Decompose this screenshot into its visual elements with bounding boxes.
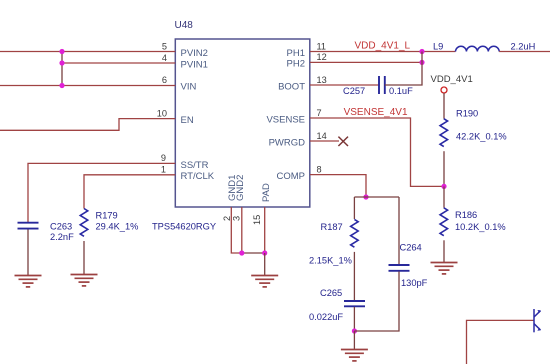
svg-text:C264: C264 xyxy=(400,243,422,253)
wire GND1 stub xyxy=(231,207,242,253)
wire bottom right net xyxy=(467,320,534,364)
wire R186 to ground xyxy=(443,240,445,262)
svg-text:PWRGD: PWRGD xyxy=(269,137,306,148)
svg-text:PH1: PH1 xyxy=(287,48,305,59)
svg-text:VDD_4V1: VDD_4V1 xyxy=(431,74,473,85)
wire R187 to C265 xyxy=(353,252,355,300)
capacitor C265 xyxy=(309,288,365,322)
resistor R179 xyxy=(80,209,138,237)
wire PVIN2 net xyxy=(0,51,175,53)
svg-text:R179: R179 xyxy=(96,211,118,221)
svg-text:12: 12 xyxy=(317,52,327,62)
svg-text:VSENSE: VSENSE xyxy=(266,114,305,125)
pin 3 GND2 xyxy=(232,175,246,221)
svg-text:7: 7 xyxy=(317,108,322,118)
ground IC xyxy=(251,276,278,287)
svg-text:13: 13 xyxy=(317,75,327,85)
ground C263 xyxy=(15,276,42,287)
svg-text:5: 5 xyxy=(162,41,167,51)
pin 8 COMP xyxy=(277,164,322,181)
wire PAD to ground xyxy=(264,253,266,275)
wire GND2 stub xyxy=(241,207,243,253)
pin 7 VSENSE xyxy=(266,108,321,126)
svg-text:R190: R190 xyxy=(456,109,478,119)
svg-text:0.022uF: 0.022uF xyxy=(309,312,343,322)
pin 1 RT/CLK xyxy=(161,165,215,183)
node PH1 junction xyxy=(419,49,424,54)
svg-text:1: 1 xyxy=(161,165,166,175)
svg-text:U48: U48 xyxy=(175,20,194,31)
wire gnd bus horizontal xyxy=(242,252,265,254)
svg-text:C263: C263 xyxy=(50,222,72,232)
wire BOOT to PH2 xyxy=(385,52,422,86)
pin 6 VIN xyxy=(162,75,197,93)
svg-text:BOOT: BOOT xyxy=(278,82,305,93)
svg-text:15: 15 xyxy=(252,215,262,225)
inductor L9 xyxy=(433,42,535,52)
ground R179 xyxy=(71,275,98,286)
capacitor C264 xyxy=(389,243,428,289)
svg-text:PAD: PAD xyxy=(261,183,272,202)
ground C265 xyxy=(341,350,368,361)
svg-text:14: 14 xyxy=(317,131,327,141)
svg-text:C265: C265 xyxy=(320,288,342,298)
svg-text:L9: L9 xyxy=(433,42,443,52)
resistor R186 xyxy=(440,208,506,236)
svg-text:PH2: PH2 xyxy=(287,59,305,70)
svg-text:10: 10 xyxy=(157,108,167,118)
svg-text:8: 8 xyxy=(317,164,322,174)
pin 14 PWRGD xyxy=(269,131,327,149)
wire VDD to R190 xyxy=(443,93,445,119)
svg-text:29.4K_1%: 29.4K_1% xyxy=(96,222,139,232)
svg-text:9: 9 xyxy=(161,153,166,163)
svg-text:COMP: COMP xyxy=(277,171,306,182)
svg-text:R187: R187 xyxy=(321,222,343,232)
svg-text:2.15K_1%: 2.15K_1% xyxy=(309,256,352,266)
node comp gnd junction xyxy=(352,328,357,333)
wire C264 top lead xyxy=(398,197,400,264)
svg-text:11: 11 xyxy=(317,41,327,51)
svg-text:R186: R186 xyxy=(455,210,477,220)
svg-text:VIN: VIN xyxy=(181,82,197,93)
pin 15 PAD xyxy=(252,183,272,225)
node PH2 junction xyxy=(419,60,424,65)
power symbol VDD_4V1 xyxy=(431,74,473,93)
IC U48 body xyxy=(175,39,309,207)
wire R179 to ground xyxy=(83,241,85,274)
svg-text:VDD_4V1_L: VDD_4V1_L xyxy=(355,41,411,52)
svg-text:TPS54620RGY: TPS54620RGY xyxy=(152,222,216,232)
pin 9 SS/TR xyxy=(161,153,209,171)
wire junction to R186 xyxy=(443,186,445,207)
capacitor C263 xyxy=(18,222,75,242)
svg-text:2.2uH: 2.2uH xyxy=(511,42,536,52)
svg-text:6: 6 xyxy=(162,75,167,85)
node input junction 2 xyxy=(59,60,64,65)
wire inductor out xyxy=(499,51,550,53)
svg-text:42.2K_0.1%: 42.2K_0.1% xyxy=(456,132,507,142)
node input junction 3 xyxy=(59,83,64,88)
pin 10 EN xyxy=(157,108,194,126)
svg-text:2.2nF: 2.2nF xyxy=(50,232,74,242)
node COMP junction xyxy=(363,194,368,199)
wire RT/CLK net xyxy=(84,175,175,209)
svg-text:C257: C257 xyxy=(343,86,365,96)
pin 11 PH1 xyxy=(287,41,327,59)
pin 12 PH2 xyxy=(287,52,327,69)
svg-text:3: 3 xyxy=(232,216,242,221)
svg-text:RT/CLK: RT/CLK xyxy=(181,171,215,182)
svg-text:EN: EN xyxy=(181,115,194,126)
svg-text:VSENSE_4V1: VSENSE_4V1 xyxy=(344,107,408,118)
wire R187 top lead xyxy=(353,197,355,219)
wire COMP net xyxy=(310,175,366,197)
no-connect X PWRGD xyxy=(338,137,348,146)
pin 13 BOOT xyxy=(278,75,327,93)
svg-text:GND2: GND2 xyxy=(235,175,246,201)
svg-text:4: 4 xyxy=(162,53,167,63)
svg-text:PVIN1: PVIN1 xyxy=(181,59,208,70)
svg-text:0.1uF: 0.1uF xyxy=(389,86,413,96)
pin 2 GND1 xyxy=(222,175,238,221)
svg-text:SS/TR: SS/TR xyxy=(181,160,209,171)
node input junction 1 xyxy=(59,49,64,54)
wire PH1 net xyxy=(310,51,456,53)
wire junction to ground xyxy=(353,331,355,349)
resistor R187 xyxy=(309,219,358,265)
wire C265 to junction xyxy=(353,307,355,331)
wire VSENSE net xyxy=(310,118,444,186)
pin 5 PVIN2 xyxy=(162,41,208,59)
transistor Q (clipped) xyxy=(534,309,541,332)
svg-text:PVIN2: PVIN2 xyxy=(181,48,208,59)
wire C264 bottom lead xyxy=(354,272,399,332)
wire C263 to ground xyxy=(27,230,29,276)
resistor R190 xyxy=(440,109,507,147)
wire EN net xyxy=(0,119,175,131)
wire COMP node horizontal xyxy=(354,196,399,198)
pin 4 PVIN1 xyxy=(162,53,208,71)
wire SS/TR net xyxy=(28,163,175,222)
wire BOOT net xyxy=(310,84,379,86)
wire R190 to junction xyxy=(443,151,445,186)
svg-text:10.2K_0.1%: 10.2K_0.1% xyxy=(455,222,506,232)
svg-text:130pF: 130pF xyxy=(401,278,428,288)
capacitor C257 xyxy=(343,76,413,96)
ground R186 xyxy=(431,263,458,274)
wire input bus vertical xyxy=(61,52,63,86)
wire VIN net xyxy=(0,85,175,87)
wire PVIN1 net xyxy=(62,62,175,64)
node gnd junction GND2 xyxy=(239,250,244,255)
svg-text:2: 2 xyxy=(222,216,232,221)
node gnd junction PAD xyxy=(262,250,267,255)
wire PAD stub xyxy=(264,207,266,253)
wire PH2 net xyxy=(310,61,422,63)
node feedback junction xyxy=(441,184,446,189)
wire PWRGD stub xyxy=(310,140,339,142)
